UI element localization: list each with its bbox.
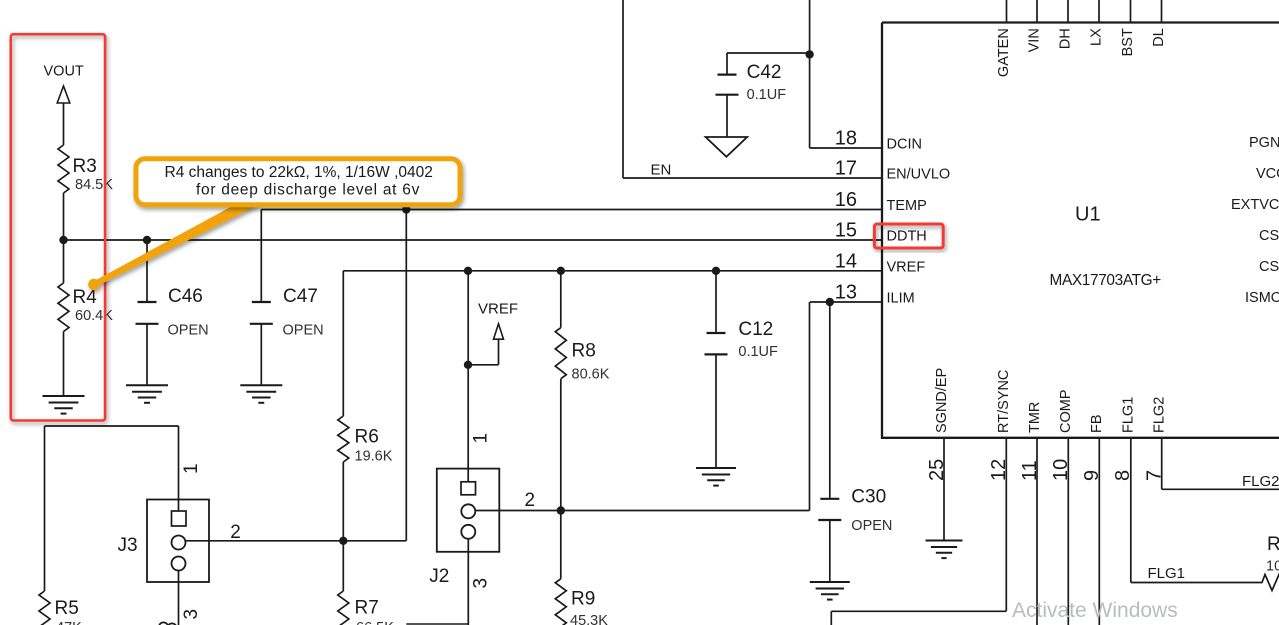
svg-text:R7: R7 xyxy=(355,598,379,619)
svg-text:OPEN: OPEN xyxy=(168,323,209,339)
svg-text:FLG2: FLG2 xyxy=(1242,473,1279,490)
svg-text:84.5K: 84.5K xyxy=(75,177,113,193)
svg-text:LX: LX xyxy=(1089,28,1105,46)
svg-text:DDTH: DDTH xyxy=(887,229,927,245)
svg-text:80.6K: 80.6K xyxy=(572,367,610,383)
svg-text:C12: C12 xyxy=(738,319,773,340)
svg-text:GATEN: GATEN xyxy=(996,28,1012,77)
svg-text:15: 15 xyxy=(835,220,857,242)
svg-text:9: 9 xyxy=(1081,470,1103,481)
svg-text:RT/SYNC: RT/SYNC xyxy=(996,370,1012,433)
svg-text:COMP: COMP xyxy=(1058,390,1074,434)
svg-text:EXTVCC: EXTVCC xyxy=(1231,197,1279,213)
svg-text:J3: J3 xyxy=(118,535,138,556)
svg-text:SGND/EP: SGND/EP xyxy=(934,368,950,433)
svg-text:10: 10 xyxy=(1266,559,1279,575)
svg-text:VCC: VCC xyxy=(1256,166,1279,182)
svg-text:EN/UVLO: EN/UVLO xyxy=(887,167,951,183)
svg-text:FB: FB xyxy=(1089,414,1105,433)
svg-text:14: 14 xyxy=(835,250,857,272)
svg-text:PGND: PGND xyxy=(1249,135,1279,151)
svg-text:19.6K: 19.6K xyxy=(355,449,393,465)
svg-text:12: 12 xyxy=(988,459,1010,481)
svg-text:MAX17703ATG+: MAX17703ATG+ xyxy=(1050,272,1162,289)
svg-text:J2: J2 xyxy=(429,566,449,587)
svg-text:C30: C30 xyxy=(851,487,886,508)
svg-text:66.5K: 66.5K xyxy=(356,620,394,625)
svg-text:47K: 47K xyxy=(56,620,82,625)
svg-text:BST: BST xyxy=(1120,28,1136,56)
svg-text:FLG1: FLG1 xyxy=(1148,565,1186,582)
svg-text:VREF: VREF xyxy=(887,259,926,275)
svg-text:13: 13 xyxy=(835,282,857,304)
svg-text:ILIM: ILIM xyxy=(887,291,915,307)
svg-text:0.1UF: 0.1UF xyxy=(747,87,787,103)
svg-text:11: 11 xyxy=(1019,460,1041,481)
svg-text:45.3K: 45.3K xyxy=(570,613,608,625)
svg-text:3: 3 xyxy=(471,578,492,589)
svg-text:R4 changes to 22kΩ, 1%, 1/16W: R4 changes to 22kΩ, 1%, 1/16W ,0402 xyxy=(165,164,433,181)
svg-text:R3: R3 xyxy=(73,156,97,177)
svg-text:3: 3 xyxy=(181,609,202,620)
svg-text:10: 10 xyxy=(1050,459,1072,481)
svg-text:R4: R4 xyxy=(73,287,98,308)
svg-text:0.1UF: 0.1UF xyxy=(738,344,778,360)
svg-text:for deep discharge level at 6v: for deep discharge level at 6v xyxy=(196,181,420,198)
svg-text:R5: R5 xyxy=(55,598,79,619)
svg-text:FLG1: FLG1 xyxy=(1121,397,1137,433)
svg-text:DH: DH xyxy=(1058,28,1074,49)
svg-text:FLG2: FLG2 xyxy=(1152,397,1168,433)
svg-text:7: 7 xyxy=(1144,470,1166,481)
svg-text:Activate Windows: Activate Windows xyxy=(1012,599,1178,622)
svg-text:2: 2 xyxy=(525,490,536,511)
svg-text:TMR: TMR xyxy=(1027,402,1043,433)
svg-text:2: 2 xyxy=(230,522,241,543)
svg-text:U1: U1 xyxy=(1075,204,1101,226)
svg-text:DL: DL xyxy=(1151,28,1167,47)
svg-text:R6: R6 xyxy=(355,427,379,448)
svg-text:R: R xyxy=(1267,534,1279,555)
svg-text:25: 25 xyxy=(926,459,948,481)
svg-text:C42: C42 xyxy=(747,62,782,83)
svg-text:18: 18 xyxy=(835,128,857,150)
svg-text:DCIN: DCIN xyxy=(887,137,922,153)
svg-text:C46: C46 xyxy=(168,286,203,307)
svg-text:OPEN: OPEN xyxy=(851,518,892,534)
svg-text:60.4K: 60.4K xyxy=(75,308,113,324)
svg-text:17: 17 xyxy=(835,158,857,180)
svg-text:16: 16 xyxy=(835,189,857,211)
svg-text:ISMON: ISMON xyxy=(1245,290,1279,306)
svg-text:TEMP: TEMP xyxy=(887,198,927,214)
svg-text:VREF: VREF xyxy=(478,301,518,318)
svg-text:EN: EN xyxy=(651,162,672,179)
svg-text:1: 1 xyxy=(181,463,202,474)
svg-text:VIN: VIN xyxy=(1027,28,1043,52)
svg-text:R9: R9 xyxy=(571,589,595,610)
svg-text:CSN: CSN xyxy=(1259,259,1279,275)
svg-text:OPEN: OPEN xyxy=(283,323,324,339)
svg-text:VOUT: VOUT xyxy=(44,64,84,80)
svg-text:1: 1 xyxy=(471,433,492,444)
svg-text:8: 8 xyxy=(1112,470,1134,481)
svg-text:R8: R8 xyxy=(572,341,596,362)
svg-text:CSP: CSP xyxy=(1259,228,1279,244)
svg-text:C47: C47 xyxy=(283,286,318,307)
